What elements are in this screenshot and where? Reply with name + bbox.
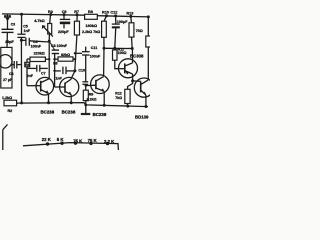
wire T4 to T5 base <box>133 80 141 82</box>
svg-text:R3: R3 <box>48 10 53 14</box>
svg-text:5 K: 5 K <box>57 137 65 142</box>
svg-text:75 K: 75 K <box>88 138 98 143</box>
svg-text:C11: C11 <box>91 46 97 50</box>
resistor R8 (in rail) <box>85 14 98 19</box>
svg-text:C5: C5 <box>23 24 28 28</box>
capacitor C10a coupling <box>55 70 61 72</box>
svg-text:75Ω: 75Ω <box>136 29 143 33</box>
wire T4 to R12 <box>128 81 133 89</box>
svg-text:1.2kΩ: 1.2kΩ <box>2 96 12 100</box>
transistor T3 BC238 <box>91 48 110 105</box>
svg-text:2nF: 2nF <box>27 74 34 78</box>
capacitor C4 <box>12 61 22 69</box>
svg-text:75 K: 75 K <box>73 139 83 144</box>
svg-text:C12: C12 <box>110 10 117 14</box>
svg-text:4.7kΩ: 4.7kΩ <box>34 19 44 23</box>
resistor R14 <box>146 36 151 47</box>
emitter rail <box>17 103 148 107</box>
svg-text:22 K: 22 K <box>42 137 52 142</box>
wire top supply rail right <box>97 16 149 17</box>
svg-text:2.2 K: 2.2 K <box>104 139 115 144</box>
svg-text:2.2kΩ 7kΩ: 2.2kΩ 7kΩ <box>82 30 100 34</box>
svg-text:C9: C9 <box>62 10 67 14</box>
svg-text:R7: R7 <box>74 10 79 14</box>
svg-text:R2: R2 <box>8 109 13 113</box>
svg-text:R8: R8 <box>88 10 93 14</box>
svg-text:R4: R4 <box>25 63 29 67</box>
wire C10 to T3 base <box>86 84 96 86</box>
svg-text:1nF: 1nF <box>55 76 62 80</box>
svg-text:27 μF: 27 μF <box>3 78 13 82</box>
svg-text:R10: R10 <box>102 10 109 14</box>
capacitor C3 <box>2 29 14 47</box>
transistor T5 BD139 <box>134 78 153 107</box>
svg-text:C10: C10 <box>78 69 85 73</box>
wire C6 to pot bottom <box>29 41 49 42</box>
ground bar <box>81 113 91 115</box>
resistor R4 <box>25 62 30 67</box>
ground stub <box>85 105 87 114</box>
wire mid bus y48 <box>104 47 132 49</box>
wire C5 to node <box>20 37 22 40</box>
svg-text:100nF: 100nF <box>57 44 68 48</box>
wire right edge collector feed <box>147 17 149 36</box>
wire vertical bus to emitter rail <box>20 40 22 103</box>
wire T4 emitter feed <box>131 49 133 63</box>
svg-text:8.2kΩ: 8.2kΩ <box>87 97 97 101</box>
svg-text:BC238: BC238 <box>41 110 55 115</box>
svg-text:BC238: BC238 <box>62 110 76 115</box>
wire top supply rail left <box>2 14 85 15</box>
wire pot wiper / T1 collector line <box>48 41 50 79</box>
capacitor C7 <box>27 65 48 72</box>
svg-text:100nF: 100nF <box>90 54 101 58</box>
svg-text:BC238: BC238 <box>93 112 107 117</box>
resistor R9 <box>83 90 88 100</box>
svg-text:39pF: 39pF <box>5 40 14 44</box>
svg-text:100μF: 100μF <box>117 20 128 24</box>
capacitor C5 <box>17 34 25 37</box>
transistor T2 BC238 <box>55 71 79 103</box>
svg-text:C4: C4 <box>9 72 14 76</box>
wire C11 to C10 <box>85 55 87 82</box>
svg-text:100Ω: 100Ω <box>118 51 127 55</box>
wire C5 drop <box>21 14 23 34</box>
svg-text:220μF: 220μF <box>58 30 69 34</box>
svg-text:BC308: BC308 <box>130 53 144 58</box>
svg-text:R9: R9 <box>89 92 94 96</box>
wire R7 to T2 collector <box>75 35 77 71</box>
svg-text:C7: C7 <box>41 72 46 76</box>
mic circle <box>0 55 12 68</box>
antenna / trimmer symbol <box>5 15 11 21</box>
node dots on rail <box>20 13 150 19</box>
transistor T1 BC238 <box>27 77 54 102</box>
svg-text:R6: R6 <box>53 62 57 66</box>
wire bottom scale line <box>23 143 118 150</box>
microphone box <box>1 47 12 88</box>
svg-text:220kΩ: 220kΩ <box>34 52 45 56</box>
twig figure bottom left <box>3 124 8 150</box>
wire left edge drop <box>7 14 9 29</box>
resistor R12 <box>125 89 130 103</box>
svg-text:100nF: 100nF <box>31 45 42 49</box>
svg-text:180kΩ: 180kΩ <box>86 24 98 28</box>
svg-text:R13: R13 <box>126 11 133 15</box>
svg-text:1nF: 1nF <box>24 29 31 33</box>
capacitor C6 <box>26 38 29 46</box>
svg-text:BD139: BD139 <box>135 114 149 119</box>
svg-text:7kΩ: 7kΩ <box>115 96 122 100</box>
wire node A right <box>21 39 26 41</box>
node A <box>20 39 23 42</box>
wire T1 base column <box>26 59 28 86</box>
svg-text:C3: C3 <box>11 22 15 26</box>
wire interstage bus <box>54 54 56 88</box>
capacitor C11 <box>75 52 82 54</box>
